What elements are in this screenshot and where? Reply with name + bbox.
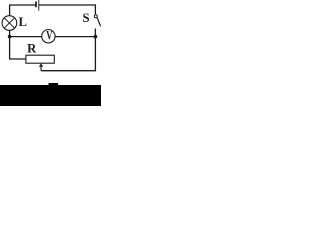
svg-text:L: L [19,15,27,29]
svg-text:R: R [27,42,37,56]
svg-text:V: V [46,28,52,42]
svg-text:S: S [83,11,90,25]
